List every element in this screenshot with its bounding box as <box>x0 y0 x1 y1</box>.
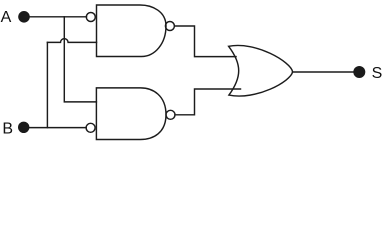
wire OR output to node S <box>293 71 354 73</box>
NAND gate U1 output bubble <box>165 22 174 31</box>
wire B branch horizontal to U1 with hop over A branch <box>47 39 96 43</box>
svg-text:S: S <box>372 65 383 82</box>
wire U2 output to OR bottom input <box>175 89 241 115</box>
node S terminal dot <box>353 66 365 78</box>
wire B to U2 inverted input <box>24 127 86 129</box>
wire B branch vertical to U1 lower input <box>46 42 48 127</box>
node A terminal dot <box>18 11 30 23</box>
NAND gate U2 body <box>96 88 166 140</box>
NAND gate U2 output bubble <box>166 110 175 119</box>
NAND gate U1 body <box>97 5 167 57</box>
wire A branch vertical to U2 top input <box>64 17 96 102</box>
NAND gate U1 input bubble <box>86 13 95 22</box>
OR gate U3 body <box>229 45 293 96</box>
node B terminal dot <box>18 122 29 133</box>
wire A to U1 inverted input <box>24 16 87 18</box>
svg-text:B: B <box>2 121 13 138</box>
NAND gate U2 input bubble <box>86 123 95 132</box>
wire U1 output to OR top input <box>175 26 236 57</box>
svg-text:A: A <box>1 9 12 26</box>
